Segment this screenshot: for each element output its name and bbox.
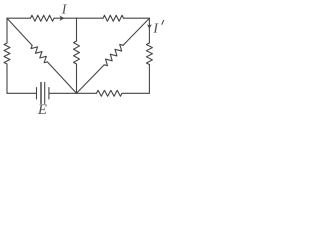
wire top edge TM to R2: [77, 17, 104, 19]
current arrow I' (downward): [147, 24, 152, 29]
current arrow I (rightward): [60, 16, 65, 21]
wire middle branch upper: [76, 18, 78, 41]
wire top middle segment: [54, 17, 77, 19]
wire diagonal TL lower lead: [47, 62, 76, 93]
resistor top-right: [103, 15, 124, 21]
resistor diagonal left: [31, 45, 47, 62]
wire right edge upper: [148, 18, 150, 43]
svg-text:I: I: [61, 2, 67, 17]
resistor middle branch: [74, 41, 80, 64]
resistor diagonal right: [104, 44, 123, 65]
wire left edge lower: [6, 64, 8, 93]
resistor right edge: [146, 43, 152, 65]
battery cell E: long plate 1: [40, 83, 42, 104]
resistor bottom-right: [97, 90, 123, 96]
wire bottom-middle to resistor: [77, 92, 97, 94]
resistor top-left: [31, 15, 55, 21]
wire battery to bottom-middle node: [50, 92, 77, 94]
wire left edge upper: [6, 18, 8, 43]
resistor left edge: [4, 43, 10, 64]
wire bottom-left to battery: [7, 92, 36, 94]
wire top edge R2 to TR corner: [124, 17, 150, 19]
wire right edge lower: [148, 65, 150, 94]
svg-text:I: I: [152, 20, 159, 35]
prime mark of I': [162, 20, 164, 24]
wire diagonal TR upper lead: [123, 18, 149, 45]
wire top-left segment: [7, 17, 31, 19]
battery cell E: short plate 1: [36, 88, 38, 99]
svg-text:E: E: [37, 102, 47, 118]
battery cell E: short plate 2: [48, 88, 50, 99]
wire diagonal TL upper lead: [7, 18, 32, 45]
wire diagonal TR lower lead: [77, 65, 105, 93]
battery cell E: long plate 2: [44, 83, 46, 104]
wire middle branch lower: [76, 64, 78, 93]
wire resistor to bottom-right corner: [122, 92, 149, 94]
